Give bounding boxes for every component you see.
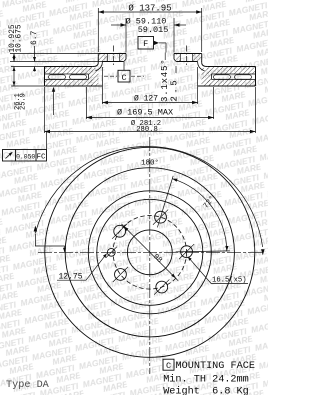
svg-text:6.7: 6.7 bbox=[30, 30, 39, 45]
svg-text:C: C bbox=[121, 73, 126, 83]
svg-text:Type DA: Type DA bbox=[6, 380, 50, 391]
svg-text:C: C bbox=[166, 361, 171, 371]
svg-text:Min. TH 24.2mm: Min. TH 24.2mm bbox=[163, 373, 249, 385]
svg-text:MOUNTING FACE: MOUNTING FACE bbox=[176, 361, 255, 372]
svg-text:Ø 137.95: Ø 137.95 bbox=[128, 4, 171, 14]
svg-text:Ø 169.5 MAX: Ø 169.5 MAX bbox=[117, 108, 173, 118]
svg-text:180°: 180° bbox=[141, 158, 159, 167]
svg-text:59.015: 59.015 bbox=[138, 25, 169, 35]
svg-text:F: F bbox=[143, 39, 148, 49]
svg-text:Ø 127: Ø 127 bbox=[134, 95, 158, 104]
svg-text:10.675: 10.675 bbox=[16, 24, 24, 52]
svg-text:280.8: 280.8 bbox=[136, 126, 158, 134]
svg-text:3.1x45°: 3.1x45° bbox=[160, 59, 170, 102]
svg-text:2.5: 2.5 bbox=[170, 78, 180, 102]
svg-text:Weight 6.8 Kg: Weight 6.8 Kg bbox=[163, 386, 249, 395]
svg-text:FC: FC bbox=[36, 154, 46, 162]
svg-text:0.050: 0.050 bbox=[16, 153, 35, 160]
svg-text:25.9: 25.9 bbox=[20, 93, 28, 110]
